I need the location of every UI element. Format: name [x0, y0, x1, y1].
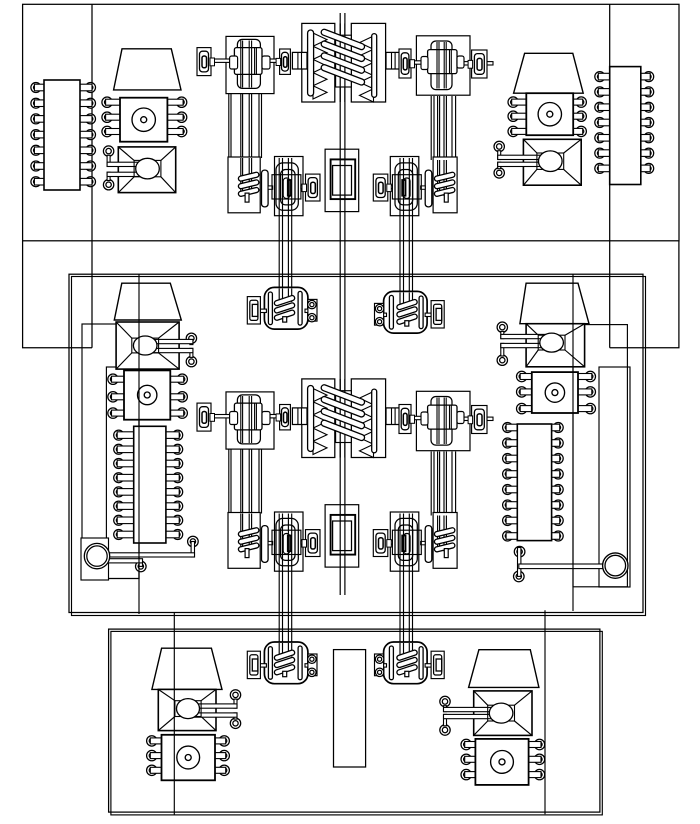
- IC U4 pin 3 (left): [503, 454, 519, 464]
- assembly A4 winding bar 1: [434, 527, 455, 537]
- IC U3 pin 5 (left): [114, 487, 136, 497]
- coil B4 winding bar 2: [396, 657, 418, 668]
- IC U4 pin 12 (right): [550, 485, 563, 495]
- coil B1 body: [264, 287, 308, 329]
- motor M2 pin 4 (right): [572, 97, 587, 107]
- assembly A1 comp body: [276, 163, 298, 210]
- assembly A2 plate: [425, 170, 432, 207]
- assembly A4 tick: [421, 541, 426, 544]
- motor M4 body: [532, 372, 578, 413]
- motor M6 body: [475, 739, 528, 785]
- bottom board shadow: [111, 631, 602, 815]
- crystal Y4 pad left: [399, 405, 415, 434]
- IC U2 pin 14 (right): [639, 72, 653, 82]
- assembly A1 comp inner: [283, 178, 290, 198]
- inductor L1 winding bar 2: [320, 40, 365, 62]
- transformer T4 lead 1: [497, 322, 552, 339]
- coil B2 terminal pad B: [375, 303, 387, 326]
- coil B1 plate right: [298, 291, 302, 325]
- IC U4 pin 5 (left): [503, 485, 519, 495]
- IC U1 pin 14 (right): [79, 83, 96, 93]
- motor M4 pin 1 (left): [517, 371, 534, 381]
- IC U4 pin 16 (right): [550, 423, 563, 433]
- assembly A2 coil pad: [433, 157, 457, 213]
- top board left tab: [23, 241, 92, 348]
- motor M2 pin 1 (left): [508, 97, 528, 107]
- bottom center block: [334, 650, 366, 767]
- assembly A3 tick 2: [301, 541, 306, 544]
- motor M3 pin 2 (left): [108, 392, 126, 402]
- legs crystal Y3 sides: [229, 449, 262, 513]
- inductor L1 pad left: [302, 23, 335, 102]
- transformer T3 body: [116, 322, 179, 369]
- crystal Y4 lead shaft left: [405, 416, 429, 419]
- coil B3 terminal pad A: [247, 651, 266, 678]
- crystal Y4 slab: [431, 397, 452, 446]
- inductor L2 winding bar 4: [320, 419, 365, 441]
- speaker S4 cone: [520, 283, 589, 324]
- motor M2 pin 2 (left): [508, 111, 528, 121]
- coil B2 plate right: [389, 295, 393, 329]
- L2 lead right: [386, 408, 401, 425]
- crystal Y2 knob right: [457, 56, 464, 68]
- motor M1 pin 2 (left): [102, 112, 122, 122]
- IC U2 pin 12 (right): [639, 102, 653, 112]
- assembly A3 plate: [262, 526, 269, 563]
- transformer T5 lead 1: [188, 690, 241, 709]
- crystal Y2 pad left: [399, 49, 415, 78]
- crystal Y2 lead shaft right: [462, 62, 493, 65]
- IC U1 pin 7 (left): [31, 177, 46, 187]
- L1 lead right: [386, 52, 401, 69]
- legs asm A3 down: [279, 569, 292, 644]
- crystal Y2 pad right: [468, 50, 487, 78]
- assembly A2 comp square: [392, 175, 421, 199]
- legs crystal Y2 sides: [431, 96, 455, 160]
- coil B1 winding bar 3: [274, 310, 296, 321]
- inductor L1 center slab: [336, 23, 352, 102]
- assembly A2 comp core: [402, 180, 405, 196]
- IC U3 pin 12 (right): [164, 487, 182, 497]
- coil B4 stub: [405, 671, 409, 676]
- coil B2 body: [384, 291, 428, 333]
- module K1 frame: [325, 149, 359, 211]
- crystal Y3 body: [234, 403, 262, 430]
- coil B2 winding bar 2: [396, 306, 418, 317]
- speaker S3 cone: [114, 283, 181, 320]
- assembly A1 plate: [262, 170, 269, 207]
- IC U4 pin 9 (right): [550, 531, 563, 541]
- assembly A4 terminal pad: [373, 530, 391, 557]
- transformer T2 body: [523, 139, 581, 185]
- assembly A1 winding bar 1: [238, 172, 259, 182]
- jumper W2 bar long: [514, 546, 605, 581]
- coil B4 plate right: [389, 646, 393, 680]
- crystal Y1 lead shaft right: [266, 59, 281, 62]
- coil B1 plate left: [268, 292, 272, 325]
- transformer T5 lead 2: [188, 713, 241, 729]
- assembly A4 winding bar 3: [434, 542, 455, 552]
- middle board outline: [69, 274, 643, 612]
- coil B1 terminal pad A: [247, 297, 266, 324]
- IC U3 pin 10 (right): [164, 515, 182, 525]
- jumper W1 pad: [81, 538, 109, 580]
- bottom board outline: [109, 629, 600, 812]
- coil B1 winding bar 2: [274, 302, 296, 313]
- crystal Y1 knob left: [230, 56, 238, 69]
- motor M6 pin 5 (right): [527, 754, 545, 764]
- IC U1 pin 3 (left): [31, 114, 46, 124]
- crystal Y1 knob right: [262, 56, 270, 69]
- IC U3 pin 14 (right): [164, 459, 182, 469]
- inductor L1 plate right: [372, 34, 377, 98]
- transformer T1 lead 2: [103, 172, 147, 190]
- assembly A3 comp inner: [283, 534, 290, 554]
- coil B2 terminal pad A: [425, 301, 444, 328]
- assembly A4 comp square: [392, 530, 421, 554]
- assembly A4 comp core: [402, 536, 405, 552]
- right column axis line: [572, 274, 574, 611]
- assembly A1 comp square: [272, 175, 301, 199]
- middle board inner frame left: [82, 324, 139, 579]
- coil B3 stub: [283, 671, 287, 676]
- L2 lead left: [292, 408, 307, 425]
- inductor L1 pad right: [351, 23, 385, 102]
- motor M3 pin 6 (right): [169, 408, 188, 418]
- coil B3 plate left: [268, 647, 272, 680]
- inductor L1 winding bar 4: [320, 64, 365, 86]
- coil B3 plate right: [298, 646, 302, 680]
- motor M5 body: [162, 735, 216, 781]
- motor M3 pin 5 (right): [169, 392, 188, 402]
- IC U3 pin 3 (left): [114, 459, 136, 469]
- assembly A2 comp body: [395, 163, 417, 210]
- inductor L2 winding bar 2: [320, 396, 365, 418]
- transformer T4 core: [538, 333, 565, 352]
- bottom left axis line: [173, 613, 175, 815]
- motor M3 pin 3 (left): [108, 408, 126, 418]
- inductor L2 zigzag left: [313, 389, 327, 455]
- IC U1 pin 11 (right): [79, 130, 96, 140]
- assembly A4 tick 2: [388, 541, 393, 544]
- motor M5 pin 6 (right): [214, 765, 230, 775]
- transformer T2 lead 2: [494, 162, 550, 178]
- crystal Y1 slab: [237, 39, 260, 88]
- assembly A2 through leads: [438, 160, 447, 196]
- inductor L1 winding bar 1: [320, 28, 365, 50]
- crystal Y4 lead shaft right: [462, 417, 493, 420]
- coil B4 terminal pad A: [425, 651, 444, 678]
- crystal Y3 lead shaft right: [266, 415, 281, 418]
- crystal Y4 pad right: [468, 406, 487, 434]
- crystal Y1 pad left: [197, 48, 215, 76]
- speaker S5 cone: [152, 648, 222, 689]
- assembly A1 tick: [268, 186, 273, 189]
- transformer T6 core: [488, 703, 515, 723]
- motor M5 pin 2 (left): [147, 750, 163, 760]
- L1 lead left: [292, 52, 307, 69]
- transformer T3 lead 1: [145, 333, 196, 345]
- transformer T6 body: [474, 691, 532, 736]
- assembly A4 comp body: [395, 518, 417, 565]
- motor M4 pin 4 (right): [577, 371, 596, 381]
- IC U3 pin 2 (left): [114, 444, 136, 454]
- motor M3 body: [124, 370, 170, 419]
- IC U1 pin 4 (left): [31, 130, 46, 140]
- transformer T2 lead 1: [494, 141, 550, 159]
- assembly A3 coil pad: [228, 513, 260, 569]
- inductor L2 winding bar 1: [320, 384, 365, 406]
- inductor L1 zigzag left: [313, 33, 327, 99]
- assembly A2 tick 2: [388, 185, 393, 188]
- assembly A1 leads down: [279, 158, 292, 216]
- assembly A4 comp inner: [404, 534, 411, 554]
- crystal Y4 knob left: [421, 412, 428, 425]
- motor M1 body: [120, 98, 167, 142]
- coil B3 winding bar 2: [274, 657, 296, 668]
- IC U4 pin 4 (left): [503, 469, 519, 479]
- coil B1 terminal pad B: [305, 299, 317, 322]
- transformer T4 lead 2: [497, 343, 552, 365]
- IC U1 pin 13 (right): [79, 98, 96, 108]
- assembly A2 terminal pad: [373, 174, 391, 201]
- crystal Y3 lead shaft left: [207, 415, 236, 418]
- motor M3 pin 1 (left): [108, 374, 126, 384]
- transformer T1 body: [118, 147, 175, 193]
- assembly A2 stub: [444, 193, 448, 202]
- motor M5 pin 5 (right): [214, 750, 230, 760]
- motor M1 pin 6 (right): [166, 126, 187, 136]
- assembly A3 terminal pad: [302, 530, 320, 557]
- inductor L1 plate left: [308, 30, 314, 96]
- assembly A1 comp core: [288, 180, 291, 196]
- assembly A1 through leads: [241, 158, 252, 194]
- module K2 frame: [325, 505, 359, 567]
- crystal Y3 pad left: [197, 403, 215, 431]
- crystal Y3 pad: [226, 392, 274, 449]
- transformer T3 lead 2: [145, 348, 196, 366]
- assembly A2 tick: [421, 186, 426, 189]
- crystal Y2 body: [428, 50, 457, 74]
- assembly A1 terminal pad: [302, 174, 320, 201]
- motor M2 pin 5 (right): [572, 111, 587, 121]
- assembly A1 tick 2: [301, 185, 306, 188]
- motor M3 pin 4 (right): [169, 374, 188, 384]
- crystal Y4 pad: [416, 391, 470, 450]
- coil B2 stub: [405, 321, 409, 326]
- left column frame: [106, 367, 139, 579]
- motor M1 pin 4 (right): [166, 97, 187, 107]
- crystal Y3 knob right: [262, 412, 270, 425]
- assembly A4 plate: [425, 526, 432, 563]
- assembly A3 leads down: [279, 514, 292, 572]
- motor M5 pin 1 (left): [147, 736, 163, 746]
- crystal Y2 pad: [416, 36, 470, 95]
- IC U4 pin 13 (right): [550, 469, 563, 479]
- crystal Y3 knob left: [230, 412, 238, 425]
- motor M6 pin 1 (left): [461, 739, 477, 749]
- inductor L2 plate left: [308, 386, 314, 452]
- inductor L2 center slab: [336, 379, 352, 458]
- IC U3 pin 13 (right): [164, 473, 182, 483]
- assembly A4 leads down: [400, 514, 413, 572]
- IC U2 pin 10 (right): [639, 133, 653, 143]
- legs asm A2 down: [400, 213, 413, 294]
- crystal Y3 pad right: [276, 405, 290, 430]
- motor M4 pin 5 (right): [577, 387, 596, 397]
- middle board inner frame right: [573, 325, 627, 587]
- assembly A1 coil pad: [228, 157, 260, 213]
- IC U1 pin 5 (left): [31, 145, 46, 155]
- legs asm A1 down: [279, 213, 292, 289]
- motor M1 pin 5 (right): [166, 112, 187, 122]
- IC U2 pin 1 (left): [595, 72, 611, 82]
- assembly A3 comp pad: [275, 512, 304, 571]
- IC U2 body: [610, 67, 641, 185]
- crystal Y2 knob left: [421, 57, 428, 70]
- IC U4 pin 11 (right): [550, 500, 563, 510]
- motor M1 pin 3 (left): [102, 126, 122, 136]
- inductor L1 winding bar 3: [320, 52, 365, 74]
- motor M4 pin 2 (left): [517, 387, 534, 397]
- assembly A1 winding bar 2: [238, 179, 259, 189]
- crystal Y1 body: [234, 48, 262, 75]
- coil B4 winding bar 3: [396, 664, 418, 675]
- legs crystal Y1 sides: [229, 94, 262, 158]
- IC U3 pin 9 (right): [164, 530, 182, 540]
- motor M1 pin 1 (left): [102, 97, 122, 107]
- crystal Y3 electrode lines: [241, 396, 257, 443]
- IC U4 pin 7 (left): [503, 516, 519, 526]
- right column frame: [599, 367, 630, 587]
- coil B3 body: [264, 642, 308, 684]
- coil B3 terminal pad B: [305, 654, 317, 677]
- crystal Y2 electrode lines: [437, 42, 451, 89]
- transformer T2 core: [537, 151, 564, 172]
- transformer T6 lead 1: [440, 696, 501, 711]
- motor M6 pin 4 (right): [527, 739, 545, 749]
- assembly A2 leads down: [400, 158, 413, 216]
- motor M6 pin 6 (right): [527, 769, 545, 779]
- speaker S6 cone: [469, 650, 539, 688]
- jumper W2 ring: [603, 553, 628, 578]
- speaker S1 cone: [114, 49, 181, 90]
- assembly A2 winding bar 2: [434, 179, 455, 189]
- assembly A4 coil pad: [433, 513, 457, 569]
- assembly A3 comp core: [288, 536, 291, 552]
- top board divider right: [609, 4, 611, 348]
- IC U4 pin 8 (left): [503, 531, 519, 541]
- top board divider left: [91, 4, 93, 348]
- inductor L2 zigzag right: [360, 392, 374, 458]
- coil B1 winding bar 1: [274, 295, 296, 306]
- speaker S2 cone: [514, 53, 584, 93]
- IC U4 pin 1 (left): [503, 423, 519, 433]
- bottom right axis line: [544, 610, 546, 814]
- assembly A2 winding bar 1: [434, 172, 455, 182]
- coil B4 winding bar 1: [396, 650, 418, 661]
- coil B2 winding bar 3: [396, 314, 418, 325]
- motor M2 pin 6 (right): [572, 126, 587, 136]
- IC U3 pin 11 (right): [164, 501, 182, 511]
- coil B4 plate left: [419, 647, 423, 680]
- jumper W1 bar short: [106, 559, 146, 572]
- inductor L2 pad right: [351, 379, 385, 458]
- coil B3 winding bar 1: [274, 650, 296, 661]
- assembly A3 comp body: [276, 518, 298, 565]
- crystal Y4 knob right: [457, 412, 464, 424]
- crystal Y4 electrode lines: [437, 398, 451, 445]
- IC U1 pin 8 (right): [79, 177, 96, 187]
- crystal Y4 body: [428, 405, 457, 429]
- crystal Y3 slab: [237, 395, 260, 444]
- IC U2 pin 2 (left): [595, 87, 611, 97]
- assembly A4 stub: [444, 549, 448, 558]
- crystal Y1 pad right: [276, 49, 290, 74]
- top board right tab: [610, 241, 679, 348]
- legs crystal Y4 sides: [431, 452, 455, 516]
- assembly A1 stub: [245, 193, 249, 202]
- jumper W1 ring: [84, 543, 109, 568]
- crystal Y2 lead shaft left: [405, 61, 429, 64]
- IC U2 pin 8 (right): [639, 163, 653, 173]
- assembly A1 winding bar 3: [238, 187, 259, 197]
- middle board shadow: [72, 277, 646, 616]
- assembly A3 through leads: [241, 514, 252, 550]
- IC U2 pin 13 (right): [639, 87, 653, 97]
- IC U3 pin 1 (left): [114, 430, 136, 440]
- assembly A3 winding bar 3: [238, 542, 259, 552]
- motor M4 pin 3 (left): [517, 403, 534, 413]
- inductor L2 pad left: [302, 379, 335, 458]
- inductor L2 winding bar 3: [320, 407, 365, 429]
- IC U2 pin 5 (left): [595, 133, 611, 143]
- transformer T6 lead 2: [440, 714, 501, 735]
- coil B3 winding bar 3: [274, 664, 296, 675]
- assembly A3 tick: [268, 541, 273, 544]
- IC U1 pin 2 (left): [31, 98, 46, 108]
- assembly A3 stub: [245, 549, 249, 558]
- IC U2 pin 9 (right): [639, 148, 653, 158]
- IC U4 body: [517, 424, 551, 541]
- motor M5 pin 3 (left): [147, 765, 163, 775]
- coil B4 body: [384, 642, 428, 684]
- assembly A4 comp pad: [390, 512, 419, 571]
- coil B2 plate left: [419, 296, 423, 329]
- transformer T1 lead 1: [103, 146, 147, 167]
- crystal Y1 lead shaft left: [207, 59, 236, 62]
- motor M5 pin 4 (right): [214, 736, 230, 746]
- IC U1 pin 1 (left): [31, 83, 46, 93]
- IC U3 pin 7 (left): [114, 515, 136, 525]
- assembly A3 winding bar 2: [238, 535, 259, 545]
- assembly A2 comp inner: [404, 178, 411, 198]
- IC U4 pin 2 (left): [503, 438, 519, 448]
- motor M6 pin 3 (left): [461, 769, 477, 779]
- transformer T5 body: [158, 689, 216, 730]
- central shaft line: [340, 13, 345, 595]
- motor M2 body: [526, 93, 573, 135]
- inductor L1 zigzag right: [360, 36, 374, 102]
- IC U2 pin 4 (left): [595, 118, 611, 128]
- inductor L2 plate right: [372, 389, 377, 453]
- transformer T3 core: [132, 336, 159, 355]
- coil B2 winding bar 1: [396, 299, 418, 310]
- assembly A3 comp square: [272, 530, 301, 554]
- IC U3 pin 4 (left): [114, 473, 136, 483]
- IC U2 pin 7 (left): [595, 163, 611, 173]
- motor M2 pin 3 (left): [508, 126, 528, 136]
